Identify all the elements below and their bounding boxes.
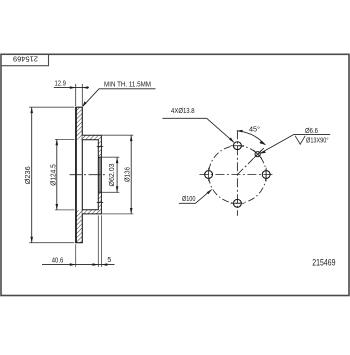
hat outline (82, 135, 101, 214)
dimension D124.5 (50, 139, 74, 210)
svg-text:215469: 215469 (312, 258, 335, 268)
hat bottom wall hatch (82, 210, 101, 214)
svg-text:MIN TH. 11.5MM: MIN TH. 11.5MM (104, 81, 151, 88)
dimension 12.9 (54, 81, 89, 106)
label 4XD13.8 (162, 108, 234, 143)
bolt hole tick upper (section) (97, 145, 103, 147)
svg-text:Ø236: Ø236 (25, 166, 32, 184)
svg-text:215469: 215469 (13, 55, 38, 62)
svg-text:Ø124.5: Ø124.5 (50, 164, 57, 186)
svg-text:12.9: 12.9 (54, 81, 66, 88)
drawing frame (1, 54, 349, 295)
bolt hole tick lower (section) (97, 202, 103, 204)
svg-text:40.6: 40.6 (52, 258, 64, 265)
dimension D236 (25, 107, 75, 243)
hat bore gray (98, 157, 101, 192)
bolt hole left (205, 168, 213, 182)
dimension D136 (102, 135, 134, 214)
disc bar hatched top band (76, 107, 83, 140)
bolt hole bottom (231, 199, 245, 207)
bolt hole right (262, 168, 270, 182)
left view: disc section (70, 107, 105, 243)
svg-text:Ø62.03: Ø62.03 (109, 163, 116, 186)
part number bottom right (312, 258, 335, 268)
bolt hole top (231, 142, 245, 150)
disc bar hatched bottom band (76, 210, 83, 243)
label D6.6 countersink (260, 128, 330, 153)
label D100 (179, 189, 212, 203)
svg-text:45°: 45° (249, 126, 260, 134)
svg-text:Ø13X90°: Ø13X90° (306, 136, 329, 144)
right view centerlines (199, 130, 274, 216)
svg-text:Ø100: Ø100 (182, 196, 196, 203)
centerline (70, 174, 105, 176)
dimensions 40.6 and 5 (42, 215, 115, 267)
hat face wall hatch upper (98, 140, 101, 158)
dimension D62.03 (102, 157, 120, 192)
small hole D6.6 at 45deg (253, 150, 262, 159)
disc bar outline (76, 107, 83, 243)
svg-text:Ø136: Ø136 (124, 167, 131, 182)
bolt circle D100 (209, 146, 267, 204)
hat face wall hatch lower (98, 192, 101, 209)
svg-text:5: 5 (107, 257, 111, 264)
svg-text:4XØ13.8: 4XØ13.8 (171, 108, 195, 115)
45 degree dimension arc (237, 126, 266, 145)
disc outboard face (thick edge) (75, 107, 77, 243)
title box top-left (1, 55, 48, 66)
svg-text:Ø6.6: Ø6.6 (305, 128, 318, 135)
hat top wall hatch (82, 135, 101, 139)
note MIN TH. 11.5MM (82, 81, 155, 107)
